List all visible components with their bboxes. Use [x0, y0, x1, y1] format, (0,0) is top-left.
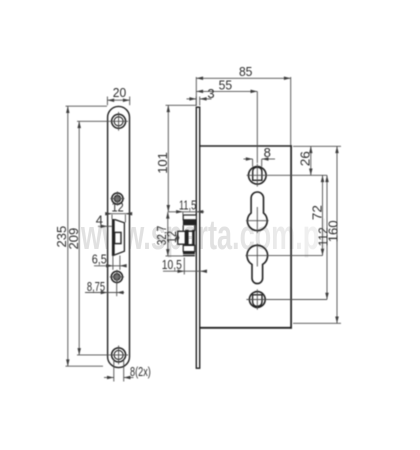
- svg-text:12: 12: [164, 231, 179, 243]
- svg-text:101: 101: [155, 152, 170, 174]
- hub hole (spindle): [247, 164, 327, 187]
- dim 101: [155, 105, 196, 212]
- svg-text:11,5: 11,5: [179, 198, 196, 213]
- svg-text:160: 160: [325, 220, 340, 242]
- svg-text:55: 55: [219, 77, 233, 92]
- dim 12 (side view, rotated): [164, 231, 179, 244]
- latch bolt front view: [112, 219, 125, 256]
- dim 6,5: [92, 252, 127, 270]
- svg-text:209: 209: [66, 228, 81, 250]
- dim 10,5: [162, 257, 207, 274]
- faceplate front view outline: [108, 106, 130, 367]
- dim 32,7: [154, 212, 183, 256]
- dim 112: [315, 175, 330, 299]
- lower middle fixing hole: [110, 270, 124, 284]
- bottom fixing hole: [246, 289, 327, 309]
- dim 235 (plate height): [54, 106, 107, 366]
- svg-text:8,75: 8,75: [87, 279, 105, 294]
- upper middle fixing hole: [110, 192, 124, 206]
- dim 8 (hub square): [244, 145, 276, 167]
- dim 85 (body width): [196, 64, 290, 145]
- dim 160: [293, 146, 341, 323]
- dim 209 (hole spacing): [66, 121, 109, 355]
- svg-text:72: 72: [310, 205, 325, 220]
- dark bars of mechanism: [185, 230, 194, 246]
- lower mechanism block: [183, 245, 195, 256]
- latch bolt side view (top mechanism): [183, 215, 197, 225]
- dim 8(2x) (screw hole dia): [104, 359, 151, 382]
- svg-text:4: 4: [96, 213, 103, 228]
- svg-text:85: 85: [239, 64, 253, 79]
- cylinder hole (euro profile): [246, 244, 323, 284]
- faceplate edge view (strip): [196, 107, 199, 368]
- svg-text:26: 26: [297, 151, 312, 166]
- key hole (upper keyhole): [246, 192, 269, 233]
- dim 55 (to keyhole axis): [196, 77, 257, 93]
- bottom screw hole: [109, 346, 128, 365]
- svg-text:12: 12: [112, 200, 124, 215]
- top screw hole: [109, 112, 128, 131]
- dim 12 (latch width, front view): [105, 200, 132, 223]
- svg-text:10,5: 10,5: [162, 257, 182, 272]
- watermark: [81, 212, 327, 259]
- svg-text:3: 3: [207, 86, 214, 101]
- follower square: [178, 231, 186, 244]
- dim 72: [310, 175, 325, 255]
- mechanism mid housing: [183, 225, 195, 245]
- dim 4 (latch face offset): [96, 213, 113, 228]
- svg-text:8(2x): 8(2x): [130, 364, 151, 379]
- svg-text:6,5: 6,5: [92, 252, 107, 267]
- svg-text:20: 20: [113, 85, 126, 100]
- dim 20 (plate width): [107, 85, 129, 105]
- lock body outline: [200, 145, 292, 328]
- dim 26: [293, 146, 341, 175]
- vertical centerline through holes: [256, 91, 258, 163]
- dim 8,75: [85, 279, 124, 296]
- svg-text:8: 8: [264, 145, 271, 160]
- dim 3 (faceplate thickness): [187, 86, 215, 105]
- dim 11,5 (latch projection): [168, 198, 204, 216]
